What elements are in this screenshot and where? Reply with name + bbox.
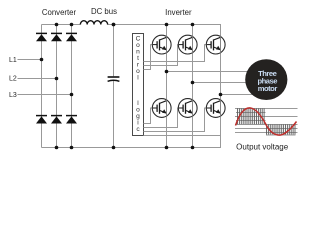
diode D2 top leg2 (51, 33, 62, 41)
wire converter leg 3 vertical (71, 25, 73, 148)
gridline short upper b (236, 120, 266, 122)
sine wave red (236, 108, 297, 135)
svg-text:Inverter: Inverter (165, 8, 192, 17)
wire DC bus capacitor bottom lead (113, 81, 115, 148)
wire gate drive bottom Q5 (144, 108, 180, 128)
svg-text:Converter: Converter (42, 8, 77, 17)
wire inverter leg2 upper (192, 25, 194, 37)
label logic (vertical) (136, 100, 140, 133)
label Three phase motor (258, 69, 278, 93)
node bottom rail inv leg2 (191, 146, 195, 150)
wire top DC+ rail left (42, 24, 81, 26)
node phase V (191, 81, 195, 85)
transistor Q3 IGBT top3 (206, 35, 225, 54)
wire inverter leg3 upper with rail corner (220, 25, 222, 37)
wire gate drive top Q2 (144, 45, 180, 66)
label Control (vertical) (136, 36, 141, 82)
wire control to leg3 emitter sense (144, 135, 221, 137)
wire L1 input (18, 59, 42, 61)
svg-text:DC bus: DC bus (91, 7, 117, 16)
PWM hatch upper band (238, 108, 265, 124)
gridline short lower (235, 128, 298, 130)
node phase U (165, 70, 169, 74)
gridline lower band bottom (266, 134, 296, 136)
node cap top (112, 23, 116, 27)
diode D4 bottom leg1 (36, 116, 47, 124)
svg-text:L3: L3 (9, 92, 17, 99)
node top rail cap tap (112, 23, 116, 27)
wire L2 input (18, 78, 57, 80)
wire inverter leg2 mid (192, 53, 194, 100)
motor M three phase (245, 59, 287, 100)
transistor Q6 IGBT bottom3 (206, 99, 225, 118)
transistor Q2 IGBT top2 (178, 35, 197, 54)
control logic box U1 (133, 34, 144, 136)
wire L3 input (18, 94, 72, 96)
gridline 3 (235, 124, 298, 126)
wire gate drive top Q1 (144, 45, 154, 70)
gridline 1 (235, 108, 298, 110)
wire converter leg 2 vertical (56, 25, 58, 148)
svg-text:L2: L2 (9, 76, 17, 83)
node phase W (219, 93, 223, 97)
svg-text:Output voltage: Output voltage (236, 142, 289, 151)
diode D5 bottom leg2 (51, 116, 62, 124)
transistor Q5 IGBT bottom2 (178, 99, 197, 118)
wire DC bus capacitor top lead (113, 25, 115, 77)
PWM hatch lower band (267, 124, 296, 135)
capacitor C1 top plate (108, 76, 120, 78)
node top rail leg3 (70, 23, 74, 27)
node top rail inv leg2 (191, 23, 195, 27)
node L1 junction (40, 58, 44, 62)
wire top DC+ rail right (108, 24, 222, 26)
node bottom rail leg3 (70, 146, 74, 150)
node L3 junction (70, 93, 74, 97)
node cap bottom (112, 146, 116, 150)
node bottom rail inv leg1 (165, 146, 169, 150)
gridline 2 (235, 116, 298, 118)
wire phase W output (221, 94, 257, 96)
wire phase U output (167, 71, 253, 73)
wire gate drive top Q3 (144, 45, 208, 62)
wire inverter leg3 lower (220, 116, 222, 147)
output voltage plot (235, 108, 298, 135)
gridline short upper a (236, 112, 266, 114)
wire phase V output (193, 82, 251, 84)
node L2 junction (55, 77, 59, 81)
capacitor C1 bottom plate curved (108, 80, 120, 81)
wire inverter leg1 lower (166, 116, 168, 147)
gridline 4 (235, 132, 298, 134)
svg-text:L1: L1 (9, 57, 17, 64)
wire inverter leg1 mid (166, 53, 168, 100)
wire bottom DC- rail (42, 147, 222, 149)
transistor Q1 IGBT top1 (152, 35, 171, 54)
transistor Q4 IGBT bottom1 (152, 99, 171, 118)
svg-text:motor: motor (258, 84, 278, 93)
wire inverter leg1 upper (166, 25, 168, 37)
node top rail inv leg1 (165, 23, 169, 27)
wire gate drive bottom Q4 (144, 108, 154, 124)
node top rail leg2 (55, 23, 59, 27)
wire inverter leg2 lower (192, 116, 194, 147)
diode D3 top leg3 (66, 33, 77, 41)
wire converter leg 1 vertical (41, 25, 43, 148)
wire gate drive bottom Q6 (144, 108, 208, 132)
wire inverter leg3 mid (220, 53, 222, 100)
diode D6 bottom leg3 (66, 116, 77, 124)
inductor L DC bus choke (80, 21, 107, 25)
diode D1 top leg1 (36, 33, 47, 41)
node bottom rail leg2 (55, 146, 59, 150)
